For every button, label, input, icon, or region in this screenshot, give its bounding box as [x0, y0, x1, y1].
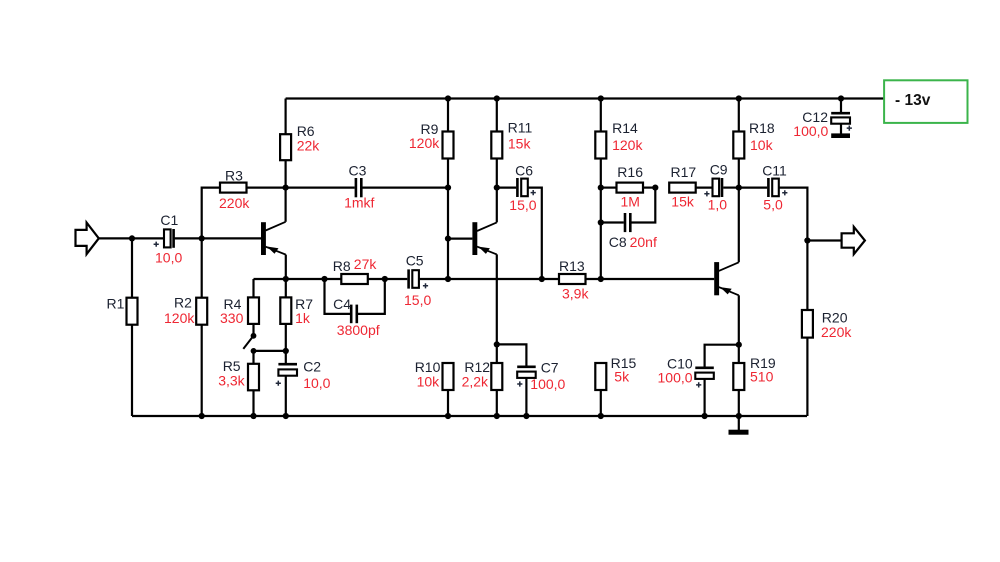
- svg-text:2,2k: 2,2k: [462, 373, 489, 389]
- resistor R20: [806, 241, 808, 311]
- ground at Q3 emitter: [738, 416, 740, 430]
- plus C12: [847, 126, 852, 131]
- node input/R1: [129, 235, 135, 241]
- node C3/R9: [445, 185, 451, 191]
- svg-text:R2: R2: [174, 295, 192, 311]
- svg-text:27k: 27k: [354, 256, 378, 272]
- svg-text:- 13v: - 13v: [895, 92, 931, 109]
- node top rail R11: [494, 95, 500, 101]
- svg-text:220k: 220k: [821, 324, 852, 340]
- capacitor C4: [325, 279, 351, 314]
- svg-text:R14: R14: [612, 120, 638, 136]
- node R7/switch wire: [283, 348, 289, 354]
- svg-text:C1: C1: [160, 212, 178, 228]
- wire C1 to Q1 base: [175, 237, 261, 239]
- switch blade: [243, 337, 252, 349]
- svg-text:15,0: 15,0: [404, 292, 431, 308]
- svg-text:R1: R1: [107, 296, 125, 312]
- svg-text:R16: R16: [617, 164, 643, 180]
- capacitor C10: [705, 345, 739, 368]
- resistor R19: [738, 345, 740, 363]
- plus C1: [154, 242, 159, 247]
- svg-text:120k: 120k: [164, 310, 195, 326]
- node R11/C6/Q2 collector: [494, 185, 500, 191]
- svg-text:10k: 10k: [417, 373, 441, 389]
- node C8 left: [598, 219, 604, 225]
- node R2 bottom rail: [199, 413, 205, 419]
- resistor R13: [559, 274, 586, 284]
- capacitor C6: [497, 187, 516, 189]
- node C1/R2/R3: [199, 235, 205, 241]
- node R8/C4 right: [382, 276, 388, 282]
- wire R8 to C5: [385, 278, 408, 280]
- plus C10: [696, 382, 701, 387]
- bottom rail: [132, 415, 807, 417]
- svg-text:10,0: 10,0: [155, 250, 182, 266]
- capacitor C9: [713, 179, 720, 197]
- svg-text:1M: 1M: [621, 194, 640, 210]
- resistor R9: [447, 99, 449, 132]
- svg-text:1,0: 1,0: [708, 196, 728, 212]
- output arrow: [842, 227, 865, 254]
- svg-text:R13: R13: [559, 258, 585, 274]
- capacitor C12: [840, 99, 842, 114]
- node C6 drop/mid wire: [539, 276, 545, 282]
- transistor Q2: [472, 222, 477, 255]
- resistor R17: [669, 183, 696, 193]
- svg-text:C5: C5: [406, 252, 424, 268]
- svg-text:C3: C3: [349, 163, 367, 179]
- plus C9: [704, 191, 709, 196]
- node Q2 emitter/C7/R12: [494, 341, 500, 347]
- resistor R11: [496, 99, 498, 132]
- svg-text:C4: C4: [333, 296, 351, 312]
- svg-text:1mkf: 1mkf: [344, 195, 374, 211]
- svg-text:C6: C6: [515, 163, 533, 179]
- svg-text:22k: 22k: [297, 137, 321, 153]
- switch contact top: [251, 333, 257, 339]
- svg-text:R3: R3: [225, 168, 243, 184]
- svg-text:15k: 15k: [508, 135, 532, 151]
- node C10 rail: [702, 413, 708, 419]
- resistor R18: [738, 99, 740, 132]
- resistor R15: [595, 363, 606, 390]
- svg-text:10,0: 10,0: [303, 375, 330, 391]
- svg-text:220k: 220k: [219, 195, 250, 211]
- svg-text:20nf: 20nf: [630, 234, 657, 250]
- svg-text:C7: C7: [541, 359, 559, 375]
- capacitor C11: [739, 187, 767, 189]
- node Q2 base tee: [445, 236, 451, 242]
- resistor R8: [325, 278, 342, 280]
- svg-text:100,0: 100,0: [658, 369, 693, 385]
- node top rail C12: [838, 95, 844, 101]
- plus C5: [423, 283, 428, 288]
- svg-text:100,0: 100,0: [793, 123, 828, 139]
- svg-text:C9: C9: [710, 162, 728, 178]
- svg-text:15k: 15k: [671, 194, 695, 210]
- node Q3 emitter/C10/R19: [736, 342, 742, 348]
- ground below C12: [831, 133, 850, 138]
- node R16/R17/C8: [652, 185, 658, 191]
- plus C6: [531, 190, 536, 195]
- plus C11: [782, 190, 787, 195]
- node R5 rail: [250, 413, 256, 419]
- top supply rail: [286, 97, 884, 99]
- svg-text:R11: R11: [508, 119, 533, 135]
- svg-text:R18: R18: [749, 120, 775, 136]
- resistor R5: [252, 351, 254, 364]
- svg-text:C2: C2: [303, 358, 321, 374]
- node Q1 emitter/R7: [283, 276, 289, 282]
- svg-text:330: 330: [220, 310, 244, 326]
- svg-text:R10: R10: [415, 359, 441, 375]
- wire input to C1: [99, 237, 164, 239]
- svg-text:3,9k: 3,9k: [562, 285, 589, 301]
- capacitor C2: [278, 363, 297, 366]
- node R8/C4 left: [321, 276, 327, 282]
- svg-text:1k: 1k: [295, 310, 311, 326]
- svg-text:120k: 120k: [612, 137, 643, 153]
- svg-text:5,0: 5,0: [763, 196, 783, 212]
- svg-text:3,3k: 3,3k: [218, 372, 245, 388]
- resistor R3: [202, 188, 220, 239]
- svg-text:C11: C11: [762, 163, 787, 179]
- resistor R2: [201, 238, 203, 297]
- switch contact bottom: [251, 348, 257, 354]
- resistor R10: [443, 363, 454, 390]
- capacitor C5: [407, 269, 410, 288]
- svg-text:10k: 10k: [750, 137, 774, 153]
- svg-text:R8: R8: [333, 258, 351, 274]
- node R13/R14 line: [598, 276, 604, 282]
- plus C7: [517, 381, 522, 386]
- wire C5 to R13: [419, 278, 559, 280]
- svg-text:120k: 120k: [409, 135, 440, 151]
- node top rail R18: [736, 95, 742, 101]
- resistor R6: [285, 99, 287, 135]
- resistor R4: [252, 279, 254, 297]
- node top rail R14: [598, 95, 604, 101]
- resistor R12: [496, 344, 498, 363]
- svg-text:3800pf: 3800pf: [337, 322, 380, 338]
- capacitor C3: [286, 187, 355, 189]
- node R10 rail: [445, 413, 451, 419]
- svg-text:5k: 5k: [614, 369, 630, 385]
- svg-text:R17: R17: [671, 164, 697, 180]
- resistor R7: [285, 279, 287, 297]
- node R14/R16: [598, 185, 604, 191]
- node R19 rail/ground: [736, 413, 742, 419]
- transistor Q3: [714, 262, 719, 295]
- node top rail R9: [445, 95, 451, 101]
- svg-text:510: 510: [750, 369, 774, 385]
- node R12 rail: [494, 413, 500, 419]
- wire to output arrow: [807, 239, 841, 241]
- input arrow: [76, 223, 99, 255]
- node C2 rail: [283, 413, 289, 419]
- node R9 line/mid wire: [445, 276, 451, 282]
- capacitor C8: [632, 188, 656, 223]
- resistor R16: [601, 187, 617, 189]
- svg-text:R12: R12: [464, 359, 490, 375]
- transistor Q1: [261, 222, 266, 255]
- resistor R14: [600, 99, 602, 132]
- node C7 rail: [523, 413, 529, 419]
- node output tee: [804, 237, 810, 243]
- capacitor C7: [497, 344, 527, 366]
- wire switch to R7 line: [254, 350, 286, 352]
- node R6/R3/C3/Q1 collector: [283, 185, 289, 191]
- supply box -13v: [884, 80, 967, 123]
- capacitor C1: [164, 229, 171, 247]
- svg-text:15,0: 15,0: [509, 197, 536, 213]
- wire Q2 base: [448, 238, 472, 240]
- plus C2: [276, 381, 281, 386]
- node C9/C11/R18/Q3 collector: [736, 185, 742, 191]
- mid wire R4 to R8: [254, 278, 325, 280]
- node R15 rail: [598, 413, 604, 419]
- resistor R1: [131, 238, 133, 297]
- svg-text:C8: C8: [609, 234, 627, 250]
- svg-text:100,0: 100,0: [530, 376, 565, 392]
